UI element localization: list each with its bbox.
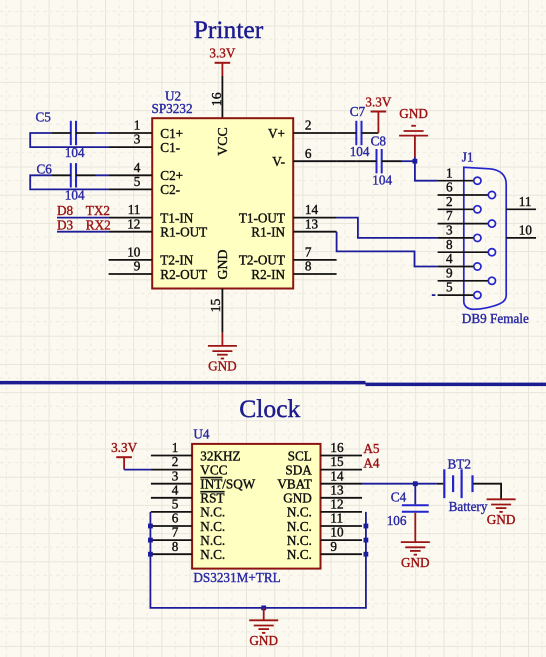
sheet divider line right bbox=[366, 383, 546, 387]
svg-text:INT/SQW: INT/SQW bbox=[200, 477, 255, 492]
svg-text:N.C.: N.C. bbox=[200, 533, 225, 548]
U2 pin 1 (C1+) bbox=[109, 118, 184, 141]
svg-text:C5: C5 bbox=[36, 109, 52, 124]
svg-text:9: 9 bbox=[134, 259, 141, 274]
svg-text:Battery: Battery bbox=[449, 499, 488, 514]
svg-text:GND: GND bbox=[208, 359, 237, 374]
svg-text:16: 16 bbox=[330, 440, 344, 455]
svg-text:5: 5 bbox=[134, 174, 141, 189]
J1 pin 7 bbox=[438, 208, 496, 227]
svg-text:104: 104 bbox=[372, 172, 392, 187]
svg-text:C2+: C2+ bbox=[160, 168, 183, 183]
svg-text:4: 4 bbox=[134, 160, 141, 175]
svg-text:D8: D8 bbox=[57, 203, 74, 218]
J1 pin 6 bbox=[438, 180, 496, 199]
junction U4 pin 11 bbox=[364, 524, 369, 529]
U4 pin 9 (N.C.) bbox=[287, 539, 362, 562]
svg-text:N.C.: N.C. bbox=[200, 519, 225, 534]
capacitor C7 bbox=[337, 104, 379, 159]
U2 pin 6 (V-) bbox=[272, 146, 336, 169]
ground GND (battery) bbox=[487, 499, 516, 527]
svg-text:6: 6 bbox=[172, 511, 179, 526]
svg-text:SDA: SDA bbox=[285, 462, 312, 477]
svg-text:N.C.: N.C. bbox=[287, 505, 312, 520]
ground GND (bottom bus) bbox=[249, 608, 278, 648]
IC U4 body bbox=[192, 444, 320, 569]
svg-text:14: 14 bbox=[305, 202, 319, 217]
ground GND (U2) bbox=[208, 333, 237, 374]
U2 pin 11 (T1-IN) bbox=[109, 202, 194, 225]
svg-text:TX2: TX2 bbox=[86, 203, 110, 218]
svg-text:R2-OUT: R2-OUT bbox=[160, 267, 207, 282]
U4 pin 2 (VCC) bbox=[151, 454, 228, 477]
U4 pin 6 (N.C.) bbox=[151, 511, 225, 534]
svg-text:VCC: VCC bbox=[215, 127, 230, 155]
svg-text:7: 7 bbox=[305, 245, 312, 260]
U4 pin 12 (N.C.) bbox=[287, 497, 362, 520]
svg-text:104: 104 bbox=[350, 144, 370, 159]
J1 pin 5 bbox=[438, 280, 481, 299]
svg-text:2: 2 bbox=[446, 194, 453, 209]
svg-text:U4: U4 bbox=[193, 426, 210, 441]
U2 pin 8 (R2-IN) bbox=[251, 259, 336, 282]
U4 pin 16 (SCL) bbox=[288, 440, 362, 463]
net label D3 RX2 bbox=[57, 217, 111, 232]
svg-text:J1: J1 bbox=[462, 150, 474, 165]
capacitor C4 bbox=[387, 484, 429, 528]
svg-text:N.C.: N.C. bbox=[287, 519, 312, 534]
wire C6 loop (pins 4-5) bbox=[30, 175, 108, 189]
J1 pin 2 bbox=[438, 194, 481, 213]
svg-text:3.3V: 3.3V bbox=[209, 46, 235, 61]
wire battery to ground bbox=[474, 484, 502, 500]
capacitor C5 bbox=[36, 109, 96, 160]
ground GND (below C4) bbox=[401, 513, 430, 570]
junction U4 pin 8 bbox=[148, 552, 153, 557]
svg-text:N.C.: N.C. bbox=[287, 547, 312, 562]
svg-text:10: 10 bbox=[127, 245, 141, 260]
svg-text:15: 15 bbox=[208, 299, 223, 313]
svg-text:C7: C7 bbox=[350, 104, 366, 119]
svg-text:V-: V- bbox=[272, 154, 285, 169]
connector J1 DB9 outline bbox=[464, 167, 506, 309]
IC U2 body bbox=[152, 118, 293, 288]
J1 pin 11 (right) bbox=[506, 194, 536, 210]
svg-text:9: 9 bbox=[446, 265, 453, 280]
svg-text:5: 5 bbox=[446, 280, 453, 295]
svg-text:8: 8 bbox=[446, 237, 453, 252]
svg-text:RX2: RX2 bbox=[86, 217, 111, 232]
svg-text:11: 11 bbox=[330, 511, 343, 526]
wire C5 loop (pins 1-3) bbox=[30, 133, 108, 147]
J1 pin 10 (right) bbox=[506, 222, 536, 238]
svg-text:7: 7 bbox=[446, 208, 453, 223]
svg-text:GND: GND bbox=[283, 491, 312, 506]
svg-text:8: 8 bbox=[172, 539, 179, 554]
U4 pin 10 (N.C.) bbox=[287, 525, 362, 548]
pin 16 VCC (U2 top) bbox=[209, 76, 224, 119]
svg-text:DB9 Female: DB9 Female bbox=[462, 311, 529, 326]
U4 pin 3 (INT/SQW) bbox=[151, 468, 256, 491]
svg-text:T1-IN: T1-IN bbox=[160, 210, 193, 225]
svg-text:4: 4 bbox=[172, 482, 179, 497]
sheet divider line left bbox=[0, 381, 366, 385]
svg-text:GND: GND bbox=[401, 555, 430, 570]
wire U2 pin13 to J1 pin4 bbox=[337, 232, 438, 267]
junction U4 pin 7 bbox=[148, 538, 153, 543]
U2 pin 2 (V+) bbox=[268, 118, 337, 141]
svg-text:14: 14 bbox=[330, 468, 344, 483]
svg-text:C2-: C2- bbox=[160, 182, 180, 197]
svg-text:VBAT: VBAT bbox=[277, 477, 311, 492]
wire U2 pin6 to C8 bbox=[337, 160, 357, 162]
svg-text:V+: V+ bbox=[268, 126, 285, 141]
svg-text:6: 6 bbox=[305, 146, 312, 161]
svg-text:GND: GND bbox=[215, 250, 230, 280]
wire VBAT (U4 pin 14) to battery bbox=[362, 483, 437, 485]
svg-text:A4: A4 bbox=[363, 456, 380, 471]
wire junction to J1 pin 1 bbox=[415, 161, 438, 181]
U4 pin 1 (32KHZ) bbox=[151, 440, 241, 463]
svg-text:C1+: C1+ bbox=[160, 126, 183, 141]
svg-text:C1-: C1- bbox=[160, 140, 180, 155]
svg-text:VCC: VCC bbox=[200, 462, 227, 477]
power 3.3V (U2 VCC) bbox=[209, 46, 235, 76]
U4 pin 8 (N.C.) bbox=[151, 539, 225, 562]
J1 pin 1 bbox=[438, 165, 481, 184]
svg-text:13: 13 bbox=[305, 216, 319, 231]
svg-text:8: 8 bbox=[305, 259, 312, 274]
svg-text:3: 3 bbox=[446, 223, 453, 238]
J1 pin 8 bbox=[438, 237, 496, 256]
power 3.3V (V+ rail) bbox=[365, 94, 391, 133]
svg-text:Printer: Printer bbox=[194, 15, 264, 44]
svg-text:3: 3 bbox=[134, 132, 141, 147]
svg-text:T2-OUT: T2-OUT bbox=[239, 253, 285, 268]
U2 pin 13 (R1-IN) bbox=[251, 216, 336, 239]
wire pin 11 stub bbox=[57, 217, 109, 219]
svg-text:GND: GND bbox=[487, 512, 516, 527]
svg-text:A5: A5 bbox=[363, 441, 380, 456]
svg-text:15: 15 bbox=[330, 454, 344, 469]
U2 pin 4 (C2+) bbox=[109, 160, 184, 183]
svg-text:1: 1 bbox=[172, 440, 179, 455]
svg-text:10: 10 bbox=[519, 222, 533, 237]
wire stub at J1 pin 5 bbox=[432, 294, 436, 296]
U2 pin 10 (T2-IN) bbox=[109, 245, 194, 268]
svg-text:GND: GND bbox=[249, 633, 278, 648]
wire 3.3V to U4 pin 2 bbox=[124, 469, 151, 471]
svg-text:10: 10 bbox=[330, 525, 344, 540]
U2 pin 14 (T1-OUT) bbox=[239, 202, 337, 225]
ground GND (near J1, inverted) bbox=[399, 106, 428, 161]
svg-text:3: 3 bbox=[172, 468, 179, 483]
U4 pin 15 (SDA) bbox=[285, 454, 362, 477]
svg-text:2: 2 bbox=[172, 454, 179, 469]
svg-text:32KHZ: 32KHZ bbox=[200, 448, 240, 463]
svg-text:RST: RST bbox=[200, 491, 224, 506]
junction U4 pin 9 bbox=[364, 552, 369, 557]
svg-text:SCL: SCL bbox=[288, 448, 312, 463]
capacitor C8 bbox=[357, 133, 402, 187]
svg-text:GND: GND bbox=[399, 106, 428, 121]
svg-text:D3: D3 bbox=[57, 217, 74, 232]
svg-text:5: 5 bbox=[172, 497, 179, 512]
svg-text:13: 13 bbox=[330, 482, 344, 497]
svg-text:T1-OUT: T1-OUT bbox=[239, 210, 285, 225]
svg-text:R1-OUT: R1-OUT bbox=[160, 225, 207, 240]
svg-text:3.3V: 3.3V bbox=[365, 94, 391, 109]
svg-text:C4: C4 bbox=[391, 490, 407, 505]
wire pin 12 stub bbox=[57, 231, 109, 233]
U2 pin 12 (R1-OUT) bbox=[109, 216, 208, 239]
U2 pin 3 (C1-) bbox=[109, 132, 180, 155]
svg-text:2: 2 bbox=[305, 118, 312, 133]
U4 pin 13 (GND) bbox=[283, 482, 362, 505]
U4 pin 4 (RST) bbox=[151, 482, 225, 505]
svg-text:N.C.: N.C. bbox=[200, 505, 225, 520]
svg-text:16: 16 bbox=[209, 92, 224, 106]
junction node (VBAT/C4) bbox=[413, 481, 418, 486]
U4 pin 11 (N.C.) bbox=[287, 511, 362, 534]
U4 pin 14 (VBAT) bbox=[277, 468, 362, 491]
svg-text:1: 1 bbox=[446, 165, 453, 180]
wire left N.C. bus (U4 pins 5-8) bbox=[150, 512, 366, 608]
svg-text:6: 6 bbox=[446, 180, 453, 195]
svg-text:3.3V: 3.3V bbox=[111, 440, 137, 455]
junction U4 pin 10 bbox=[364, 538, 369, 543]
pin 15 GND (U2 bottom) bbox=[208, 289, 223, 333]
wire U2 pin14 to J1 pin3 bbox=[337, 218, 438, 238]
capacitor C6 bbox=[37, 162, 96, 203]
wire C8 to junction bbox=[402, 160, 415, 162]
svg-text:12: 12 bbox=[330, 497, 343, 512]
U2 pin 7 (T2-OUT) bbox=[239, 245, 337, 268]
svg-text:BT2: BT2 bbox=[448, 457, 471, 472]
svg-text:11: 11 bbox=[519, 194, 532, 209]
svg-text:N.C.: N.C. bbox=[200, 547, 225, 562]
svg-text:11: 11 bbox=[128, 202, 141, 217]
battery BT2 bbox=[437, 457, 488, 515]
J1 pin 3 bbox=[438, 223, 481, 242]
svg-text:Clock: Clock bbox=[239, 394, 300, 423]
svg-text:106: 106 bbox=[387, 513, 407, 528]
U2 pin 5 (C2-) bbox=[109, 174, 180, 197]
svg-text:SP3232: SP3232 bbox=[152, 101, 193, 116]
svg-text:R2-IN: R2-IN bbox=[251, 267, 285, 282]
svg-text:9: 9 bbox=[330, 539, 337, 554]
svg-text:DS3231M+TRL: DS3231M+TRL bbox=[193, 570, 280, 585]
U4 pin 5 (N.C.) bbox=[151, 497, 225, 520]
svg-text:C8: C8 bbox=[371, 133, 387, 148]
net label D8 TX2 bbox=[57, 203, 110, 218]
svg-text:R1-IN: R1-IN bbox=[251, 225, 285, 240]
J1 pin 4 bbox=[438, 251, 481, 270]
junction bottom bus to ground bbox=[261, 606, 266, 611]
svg-text:T2-IN: T2-IN bbox=[160, 253, 193, 268]
U2 pin 9 (R2-OUT) bbox=[109, 259, 208, 282]
svg-text:7: 7 bbox=[172, 525, 179, 540]
U4 pin 7 (N.C.) bbox=[151, 525, 225, 548]
junction U4 pin 6 bbox=[148, 524, 153, 529]
J1 pin 9 bbox=[438, 265, 496, 284]
power 3.3V (U4 VCC) bbox=[111, 440, 137, 470]
svg-text:4: 4 bbox=[446, 251, 453, 266]
junction node (C8/GND/J1) bbox=[413, 159, 418, 164]
svg-text:N.C.: N.C. bbox=[287, 533, 312, 548]
svg-text:1: 1 bbox=[134, 118, 141, 133]
svg-text:12: 12 bbox=[127, 216, 140, 231]
svg-text:C6: C6 bbox=[37, 162, 53, 177]
